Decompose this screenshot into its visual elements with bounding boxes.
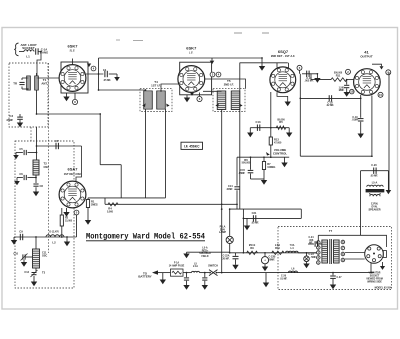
transformer T1 primary winding bbox=[27, 76, 31, 90]
wire speaker into power box bbox=[371, 155, 373, 157]
svg-text:C3: C3 bbox=[9, 114, 13, 118]
to battery arrow bbox=[152, 270, 158, 274]
inductor L2 bbox=[46, 235, 64, 237]
antenna coil shield dashed box bbox=[9, 63, 48, 127]
antenna socket brace bbox=[14, 43, 18, 56]
tube V1 6SK7 RF bbox=[59, 65, 86, 92]
wire T4 secondary top to V2 grid bbox=[161, 84, 180, 91]
pin 2 callout bbox=[346, 69, 351, 74]
transformer T1 secondary winding bbox=[35, 76, 39, 90]
capacitor C25A bbox=[186, 273, 188, 278]
buffer bus with C21 bbox=[243, 217, 301, 219]
svg-text:47,000: 47,000 bbox=[274, 141, 282, 144]
pin 4 callout V1 bbox=[91, 66, 96, 71]
ground near socket bbox=[382, 262, 384, 266]
hash choke L4 bbox=[286, 251, 299, 253]
wire osc grid up to V5 bbox=[76, 215, 78, 237]
pin 15 callout bbox=[378, 92, 383, 97]
svg-text:.05 MF.: .05 MF. bbox=[370, 175, 378, 178]
volume pot bus bbox=[237, 156, 289, 158]
T7 secondary winding bbox=[334, 240, 340, 263]
node junction dot bbox=[40, 51, 42, 53]
svg-text:.002 MF.: .002 MF. bbox=[304, 80, 314, 83]
resistor R13 diode load bbox=[269, 137, 272, 145]
svg-text:OSC: OSC bbox=[44, 165, 50, 169]
T7 primary winding bbox=[322, 240, 328, 263]
svg-text:10MEG: 10MEG bbox=[267, 166, 275, 169]
scan artifact marks bbox=[116, 39, 120, 41]
svg-text:.05MF: .05MF bbox=[6, 119, 14, 122]
buffer capacitor C24 bbox=[308, 243, 314, 245]
junction dots bbox=[98, 73, 100, 75]
wire T5 primary bottom long vertical bbox=[221, 110, 223, 273]
svg-text:C5: C5 bbox=[19, 147, 23, 151]
electrolytic C22A bbox=[235, 253, 237, 256]
socket bottom wire bbox=[370, 263, 372, 273]
wire down from bus209 bbox=[242, 209, 244, 253]
svg-text:WIRING SIDE: WIRING SIDE bbox=[367, 281, 382, 283]
speaker loop right wire bbox=[387, 171, 389, 190]
on-off switch bbox=[209, 272, 211, 274]
svg-text:O-12,470: O-12,470 bbox=[49, 231, 59, 234]
wire T5 secondary bottom long vertical bbox=[239, 63, 241, 209]
capacitor C9 bbox=[19, 234, 21, 240]
wire antenna to L1 bbox=[19, 51, 24, 53]
wire box around V1 bbox=[61, 62, 88, 93]
svg-text:TR: TR bbox=[13, 82, 17, 86]
capacitor C18 bbox=[328, 95, 330, 101]
choke L5 bbox=[192, 271, 200, 272]
diode load wire down from V3 bbox=[270, 92, 272, 157]
V3 bottom bracket bbox=[277, 92, 288, 101]
svg-text:6SA7: 6SA7 bbox=[67, 167, 78, 172]
svg-text:C7: C7 bbox=[55, 139, 59, 143]
wire T1 bottom down bbox=[36, 90, 38, 114]
resistor R7 bbox=[263, 157, 265, 161]
svg-text:SPEAKER: SPEAKER bbox=[368, 209, 380, 212]
wire V2 plate to T5 bbox=[205, 79, 246, 89]
tube V2 6SK7 IF bbox=[178, 66, 205, 93]
svg-text:C-26: C-26 bbox=[281, 276, 287, 278]
IF frequency label box bbox=[181, 142, 203, 149]
vibrator socket bbox=[365, 245, 384, 264]
plate riser wire bbox=[98, 58, 100, 90]
svg-text:.05 MF.: .05 MF. bbox=[251, 222, 259, 225]
svg-text:T7: T7 bbox=[329, 229, 333, 233]
resistor R4 bbox=[108, 203, 118, 206]
plate hook arrow bbox=[372, 64, 382, 66]
AVC wire from T1 to bus bbox=[37, 113, 101, 115]
capacitor C27 bbox=[332, 273, 334, 276]
capacitor C13 bbox=[256, 125, 258, 131]
svg-text:5,000: 5,000 bbox=[107, 210, 114, 213]
bottom supply bus bbox=[222, 272, 374, 274]
ground left of C13 bbox=[249, 128, 251, 133]
resistor R9 bbox=[247, 251, 258, 254]
svg-text:7.5A: 7.5A bbox=[290, 244, 295, 247]
coupling capacitor C16 bbox=[302, 73, 317, 75]
pin callout below V5 bbox=[74, 210, 79, 215]
voice coil bbox=[370, 194, 380, 196]
wire T4 secondary bottom bbox=[165, 109, 167, 198]
jog wire from V1 cathode bus bbox=[100, 164, 121, 166]
svg-text:R.F.: R.F. bbox=[70, 49, 76, 53]
cathode ground V2 bbox=[186, 95, 188, 98]
ground right end of pot bbox=[284, 157, 286, 162]
resistor R5 bbox=[276, 126, 285, 129]
svg-text:1B: 1B bbox=[350, 90, 353, 94]
B+ wire drop bbox=[261, 58, 263, 63]
electrolytic C23 bbox=[306, 253, 308, 256]
cathode ground V1 bbox=[66, 93, 68, 97]
capacitor C7 bbox=[55, 143, 57, 149]
svg-text:I.F.: I.F. bbox=[189, 51, 193, 55]
svg-text:OSC: OSC bbox=[42, 255, 47, 258]
wire box around V2 bbox=[180, 62, 212, 95]
wire C1 to T1 bbox=[37, 52, 41, 77]
svg-text:C6: C6 bbox=[19, 172, 23, 176]
svg-text:500,000: 500,000 bbox=[242, 162, 251, 165]
top wire to vibrator bbox=[318, 235, 386, 247]
ground right of R5 bbox=[288, 128, 290, 133]
ground at V1 pin bbox=[87, 64, 91, 68]
svg-text:2.1A: 2.1A bbox=[193, 265, 198, 268]
wire over V3 bbox=[240, 62, 288, 64]
svg-text:L1: L1 bbox=[26, 55, 30, 59]
pilot lamp bbox=[226, 236, 233, 243]
T5 primary winding bbox=[217, 91, 226, 110]
svg-text:.01MF: .01MF bbox=[226, 189, 233, 191]
svg-text:MODEL 62-554: MODEL 62-554 bbox=[375, 287, 392, 290]
capacitor C5 bbox=[28, 152, 37, 154]
resistor R10 bbox=[272, 251, 285, 254]
ground stub over V3 bbox=[261, 63, 263, 66]
svg-text:CONTROL: CONTROL bbox=[273, 151, 288, 155]
V3 top stubs bbox=[276, 63, 278, 68]
svg-text:C21: C21 bbox=[252, 211, 257, 215]
ground under R1 bbox=[87, 208, 89, 221]
capacitor C8 bbox=[35, 175, 37, 183]
gang link dashed line short bbox=[30, 127, 32, 141]
ground speaker field lead bbox=[186, 252, 188, 253]
power unit dashed box bbox=[278, 227, 392, 290]
T4 primary winding bbox=[144, 91, 153, 109]
svg-text:ANT.: ANT. bbox=[41, 82, 47, 86]
T4 secondary winding bbox=[157, 91, 166, 109]
capacitor C17 bbox=[346, 80, 348, 85]
pin callouts left of T5 bbox=[210, 72, 215, 77]
AVC bus horizontal bbox=[88, 197, 166, 199]
svg-text:L5-A: L5-A bbox=[372, 182, 378, 185]
svg-text:2MEG: 2MEG bbox=[91, 203, 98, 206]
svg-text:2ND I.F.: 2ND I.F. bbox=[224, 83, 234, 87]
transformer T5 dashed box bbox=[213, 89, 245, 112]
choke L6 bbox=[289, 271, 298, 273]
speaker core bar bbox=[366, 189, 385, 192]
ground below V5 bbox=[66, 208, 68, 212]
B+ rail right bbox=[388, 72, 390, 190]
pin 8 callout bbox=[386, 70, 391, 75]
ground right of C16 bbox=[316, 74, 318, 78]
wire V3 side down bbox=[299, 74, 301, 99]
wire to V5 signal grid bbox=[76, 146, 82, 182]
wire across to speaker bbox=[300, 155, 372, 157]
svg-text:.02 MF.: .02 MF. bbox=[326, 104, 334, 107]
svg-text:MMF.: MMF. bbox=[339, 90, 345, 92]
T5 secondary winding bbox=[231, 91, 240, 110]
svg-text:C12: C12 bbox=[24, 271, 29, 274]
svg-text:.05MF: .05MF bbox=[238, 172, 245, 175]
svg-text:20MF.: 20MF. bbox=[269, 258, 276, 261]
capacitor C20 bbox=[373, 168, 375, 174]
svg-text:C-20: C-20 bbox=[371, 164, 377, 167]
wire T1 secondary to grid of V1 bbox=[36, 73, 38, 76]
capacitor C6 bbox=[28, 177, 37, 179]
volume pot wiper arrow bbox=[266, 152, 270, 156]
T7 right pin callouts bbox=[341, 240, 345, 244]
wire down to T3 bbox=[35, 237, 37, 249]
svg-text:VIEWED FROM: VIEWED FROM bbox=[366, 278, 383, 280]
svg-text:OUTPUT: OUTPUT bbox=[360, 55, 373, 59]
svg-text:L2: L2 bbox=[52, 241, 56, 245]
wire T4 primary bottom bbox=[145, 109, 147, 198]
trimmer C12 bbox=[35, 268, 37, 271]
svg-text:C14: C14 bbox=[228, 185, 233, 188]
svg-text:T2: T2 bbox=[44, 162, 48, 166]
tube V4 41 bbox=[354, 69, 381, 96]
svg-text:LAMP: LAMP bbox=[219, 231, 226, 234]
svg-text:MF.: MF. bbox=[309, 242, 313, 244]
svg-text:Montgomery Ward Model 62-554: Montgomery Ward Model 62-554 bbox=[86, 232, 205, 242]
output transformer winding bbox=[367, 185, 383, 187]
ground left of C9 bbox=[13, 237, 15, 240]
svg-text:20 MF.: 20 MF. bbox=[222, 257, 230, 260]
capacitor C19 bbox=[360, 98, 362, 117]
svg-text:I.F. 456KC: I.F. 456KC bbox=[184, 144, 200, 148]
bus join riser bbox=[104, 198, 106, 204]
svg-text:C8: C8 bbox=[40, 184, 44, 188]
inductor L1 bbox=[24, 50, 34, 52]
svg-text:BATTERY: BATTERY bbox=[138, 275, 151, 279]
wires T7 to socket bbox=[345, 252, 365, 254]
fuse F1 bbox=[171, 269, 184, 276]
capacitor C1 bbox=[35, 48, 37, 54]
capacitor C25B bbox=[204, 273, 206, 278]
svg-text:C13: C13 bbox=[256, 120, 261, 124]
ground stub under L2 bbox=[66, 237, 68, 242]
capacitor C26 bbox=[265, 273, 267, 283]
pin 1B callout bbox=[350, 89, 355, 94]
svg-text:1ST I.F.: 1ST I.F. bbox=[151, 84, 161, 88]
gang link dashed line long bbox=[48, 63, 50, 253]
ground at speaker bbox=[386, 190, 392, 194]
T7 left pin callouts bbox=[317, 241, 321, 245]
trimmer TR bbox=[19, 81, 24, 83]
svg-text:SWITCH: SWITCH bbox=[208, 265, 218, 268]
speaker loop left wire bbox=[360, 171, 362, 236]
transformer T4 dashed box bbox=[140, 89, 172, 112]
trimmer C10 bbox=[22, 254, 24, 259]
svg-text:.01MF: .01MF bbox=[352, 119, 359, 122]
bus to power area bbox=[230, 208, 302, 210]
filter bus bbox=[230, 252, 319, 254]
vibrator transformer T7 core bbox=[329, 239, 331, 264]
capacitor C3 AVC bypass bbox=[19, 114, 21, 117]
grid resistor R11 bbox=[311, 79, 331, 81]
svg-text:C-24: C-24 bbox=[309, 236, 315, 239]
socket keyway bbox=[383, 251, 386, 258]
resistor R1 AVC bbox=[87, 198, 89, 200]
V4 cathode stub bbox=[360, 95, 362, 98]
svg-text:C-27: C-27 bbox=[337, 277, 343, 279]
pilot lamp riser bbox=[229, 209, 231, 236]
V4 plate wire down bbox=[371, 96, 373, 157]
svg-text:6SQ7: 6SQ7 bbox=[278, 49, 289, 54]
svg-text:1ST DET-OSC: 1ST DET-OSC bbox=[64, 172, 82, 176]
wire V1 cathode bus down bbox=[99, 114, 101, 165]
svg-text:6SK7: 6SK7 bbox=[186, 46, 197, 51]
tube V3 6SQ7 bbox=[270, 67, 296, 93]
ground near battery bbox=[162, 273, 164, 280]
resistor R2 bbox=[61, 208, 63, 215]
svg-text:500,000: 500,000 bbox=[334, 73, 343, 75]
B+ arrow at V2 bbox=[211, 58, 213, 61]
oscillator grid bus bbox=[14, 236, 77, 238]
bus B minus bbox=[105, 203, 237, 205]
speaker field wire bbox=[187, 251, 230, 253]
tone cap C18 bus bbox=[300, 97, 360, 99]
svg-text:15,000: 15,000 bbox=[65, 220, 73, 222]
wire into T5 primary bbox=[203, 90, 222, 92]
capacitor C21 bbox=[252, 215, 254, 221]
AVC bus with C13 and R5 bbox=[250, 127, 289, 129]
pin callout below V1 bbox=[74, 93, 76, 100]
svg-text:6SK7: 6SK7 bbox=[67, 44, 78, 49]
svg-text:C9: C9 bbox=[19, 230, 23, 234]
screen bypass C4 bbox=[86, 73, 103, 75]
svg-text:950 Ω: 950 Ω bbox=[249, 245, 255, 247]
ground under C21 left bbox=[246, 218, 248, 225]
coupling capacitor C14 bbox=[236, 157, 238, 185]
svg-text:C10: C10 bbox=[13, 253, 18, 256]
cathode arrow V2 bbox=[190, 93, 194, 96]
wire V1 plate to T4 bbox=[99, 89, 146, 91]
wire grid circuit at 146 bbox=[36, 127, 38, 160]
svg-text:15: 15 bbox=[379, 93, 382, 97]
pin callout right of V3 bbox=[297, 65, 302, 70]
svg-text:FIELD: FIELD bbox=[202, 255, 209, 258]
B+ top wire bbox=[99, 57, 263, 59]
svg-text:+: + bbox=[264, 259, 266, 263]
svg-text:.05 MF.: .05 MF. bbox=[103, 79, 111, 82]
grid cap stub V1 bbox=[72, 59, 74, 65]
svg-text:2ND DET - 1ST A.F.: 2ND DET - 1ST A.F. bbox=[271, 54, 295, 58]
svg-text:14 AMP FUSE: 14 AMP FUSE bbox=[169, 264, 185, 267]
tube V5 6SA7 bbox=[59, 181, 86, 208]
electrolytic C22B bbox=[264, 253, 266, 257]
T4 tuning arrows bbox=[142, 104, 145, 107]
ground under R7 bbox=[261, 180, 267, 185]
T5 tuning arrows bbox=[215, 104, 218, 107]
svg-text:SOCKET: SOCKET bbox=[370, 276, 380, 278]
speaker loop top wire bbox=[361, 170, 389, 172]
svg-text:.5MF.: .5MF. bbox=[311, 256, 317, 259]
oscillator coil T2 bbox=[33, 160, 39, 175]
capacitor C15 bbox=[250, 157, 252, 170]
oscillator coil T3 bbox=[33, 249, 40, 268]
svg-text:85,000: 85,000 bbox=[277, 118, 285, 121]
svg-text:2.5Ω: 2.5Ω bbox=[275, 245, 280, 247]
osc section dashed box bbox=[15, 141, 74, 288]
svg-text:C4: C4 bbox=[103, 68, 107, 72]
svg-text:.01 MF.: .01 MF. bbox=[280, 278, 288, 280]
pin callout below V2 bbox=[199, 93, 201, 97]
